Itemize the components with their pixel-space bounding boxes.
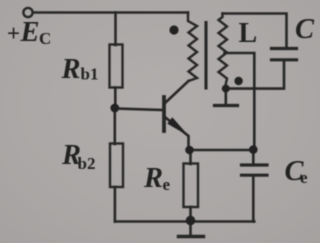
svg-text:L: L	[239, 18, 258, 49]
svg-text:b1: b1	[81, 65, 99, 84]
svg-text:E: E	[20, 17, 40, 48]
svg-text:R: R	[61, 54, 81, 85]
svg-text:b2: b2	[78, 154, 96, 173]
svg-text:R: R	[143, 163, 163, 194]
svg-text:C: C	[295, 14, 315, 45]
svg-text:C: C	[39, 29, 51, 48]
svg-text:e: e	[163, 175, 171, 194]
svg-text:+: +	[7, 21, 20, 46]
svg-text:e: e	[300, 168, 308, 187]
